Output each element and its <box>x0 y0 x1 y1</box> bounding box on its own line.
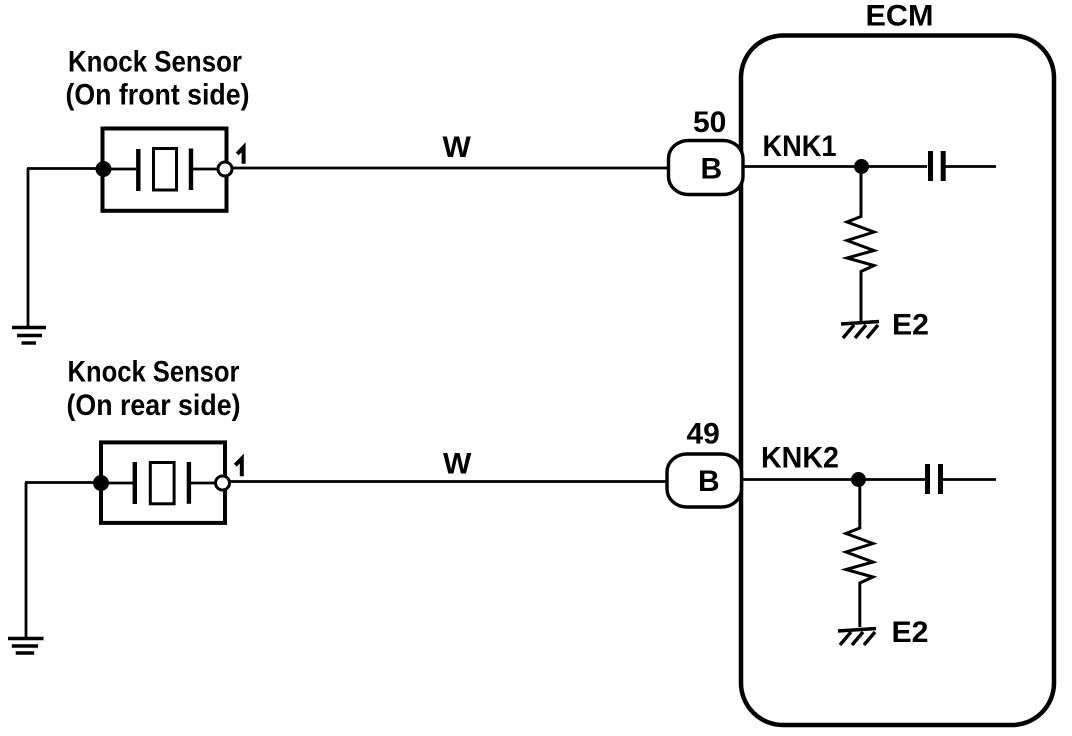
svg-text:KNK1: KNK1 <box>763 130 837 163</box>
wire W (KS2 to connector B/49) <box>231 480 668 483</box>
wire left horizontal (rear sensor to ground drop) <box>25 481 101 484</box>
wire left horizontal (front sensor to ground drop) <box>27 167 103 170</box>
piezo element KS1 <box>104 149 222 192</box>
wire W (KS1 to connector B/50) <box>233 167 670 170</box>
svg-text:E2: E2 <box>892 309 929 342</box>
svg-text:(On rear side): (On rear side) <box>67 389 241 422</box>
piezo element KS2 <box>103 462 220 504</box>
knock sensor KS1 body (On front side) <box>103 129 227 211</box>
ground (earth, rear sensor) <box>8 639 44 654</box>
pin label 1 (KS1) <box>237 147 243 164</box>
wire KNK1 inside ECM <box>744 165 927 168</box>
wire left vertical down to ground (rear) <box>25 483 28 638</box>
svg-text:Knock Sensor: Knock Sensor <box>68 355 240 388</box>
junction dot KS1 left <box>96 161 112 177</box>
svg-text:B: B <box>701 153 723 186</box>
connector B (pin 50) <box>669 141 744 195</box>
svg-text:49: 49 <box>687 418 720 451</box>
ground (earth, front sensor) <box>12 328 46 344</box>
svg-text:Knock Sensor: Knock Sensor <box>68 45 242 78</box>
resistor R2 <box>846 487 873 628</box>
junction node KNK1 <box>854 159 869 174</box>
wire right of C1 <box>946 165 997 168</box>
capacitor C1 <box>931 151 944 181</box>
svg-text:W: W <box>443 131 472 164</box>
svg-text:50: 50 <box>693 106 726 139</box>
junction node KNK2 <box>851 472 866 487</box>
knock sensor KS2 body (On rear side) <box>101 442 225 523</box>
capacitor C2 <box>928 464 941 494</box>
connector B (pin 49) <box>667 454 742 507</box>
ground E2 (chassis, KNK2) <box>838 629 876 646</box>
wire left vertical down to ground <box>27 169 30 328</box>
resistor R1 <box>847 173 874 321</box>
svg-text:W: W <box>443 448 472 481</box>
wire right of C2 <box>943 478 996 481</box>
ground E2 (chassis, KNK1) <box>841 322 879 339</box>
ECM box U1 <box>741 36 1054 726</box>
junction dot KS2 left <box>93 475 109 491</box>
svg-text:E2: E2 <box>892 616 929 649</box>
svg-text:ECM: ECM <box>866 0 934 33</box>
pin 1 terminal (open circle, KS1) <box>218 162 232 176</box>
svg-text:KNK2: KNK2 <box>761 442 839 475</box>
pin label 1 (KS2) <box>235 459 242 477</box>
pin 1 terminal (open circle, KS2) <box>216 476 230 490</box>
svg-text:B: B <box>698 465 720 498</box>
svg-text:(On front side): (On front side) <box>66 79 250 112</box>
wire KNK2 inside ECM <box>742 478 925 481</box>
